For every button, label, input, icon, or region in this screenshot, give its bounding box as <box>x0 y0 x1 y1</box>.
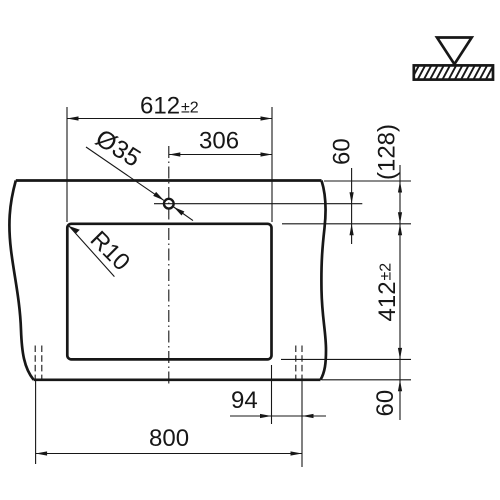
dimension text Ø35 <box>91 124 146 173</box>
leader R10 with arrow <box>69 226 114 277</box>
dimension 612/306 extension line right <box>271 107 273 222</box>
tap hole horizontal centerline <box>154 203 362 205</box>
svg-text:306: 306 <box>199 128 239 155</box>
svg-text:±2: ±2 <box>181 100 199 117</box>
dimension line 800 <box>36 451 302 455</box>
dimension line 612 <box>67 116 272 120</box>
svg-text:612: 612 <box>140 93 180 120</box>
cutout top edge extension right <box>282 223 411 225</box>
svg-text:60: 60 <box>372 390 399 417</box>
dimension line 60 top (hole centre to cutout edge) <box>350 168 354 244</box>
left clamp extension down <box>35 380 37 464</box>
worktop bottom edge extension right <box>322 379 411 381</box>
leader Ø35 upper segment with arrow <box>86 147 164 200</box>
cutout right edge extension down <box>271 365 273 424</box>
leader Ø35 lower segment with arrow <box>174 207 193 221</box>
dimension text 306 <box>199 128 239 155</box>
svg-text:412: 412 <box>374 281 401 321</box>
dimension text (128) <box>373 124 400 180</box>
installation symbol: hatched worktop bar <box>411 65 500 80</box>
left clamp dashed lines <box>35 346 42 380</box>
worktop right break line <box>321 181 327 380</box>
tap hole circle <box>164 199 174 209</box>
worktop top edge extension right <box>324 180 411 182</box>
installation symbol: triangle pointer <box>437 38 472 65</box>
dimension text 60 top <box>328 138 355 165</box>
worktop bottom edge <box>34 378 321 381</box>
svg-text:800: 800 <box>149 425 189 452</box>
cutout bottom edge extension right <box>281 358 411 360</box>
right clamp extension down <box>301 380 303 467</box>
svg-text:(128): (128) <box>373 124 400 180</box>
dimension text 60 bottom <box>372 390 399 417</box>
worktop left break line <box>9 181 33 380</box>
svg-text:60: 60 <box>328 138 355 165</box>
worktop top edge <box>16 179 322 182</box>
dimension text 800 <box>149 425 189 452</box>
dimension line 94 <box>230 414 326 418</box>
sink cutout rectangle R10 <box>67 224 271 360</box>
dimension line 306 <box>169 152 272 156</box>
dimension 612 extension line left <box>66 107 68 222</box>
right clamp dashed lines <box>296 346 302 380</box>
dimension text R10 <box>85 226 135 276</box>
dimension text 612 +-2 <box>140 93 199 120</box>
svg-text:94: 94 <box>231 387 258 414</box>
svg-text:±2: ±2 <box>378 263 395 281</box>
dimension text 412 +-2 <box>374 263 401 322</box>
dimension line (128)/412/60 right <box>398 165 402 420</box>
dimension text 94 <box>231 387 258 414</box>
tap hole vertical centerline <box>168 146 170 385</box>
